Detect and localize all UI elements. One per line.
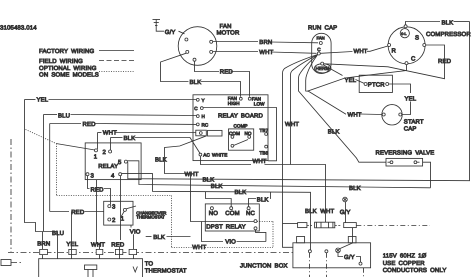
dotted wire from DPST right	[257, 221, 273, 223]
wire BLK compressor 0-L to right bus	[406, 22, 470, 25]
svg-text:1: 1	[121, 215, 125, 222]
svg-text:BLK: BLK	[124, 135, 136, 142]
fuse holder pin	[196, 130, 222, 136]
DPST relay	[205, 204, 259, 231]
wire WHT compressor R to run cap C	[321, 46, 388, 53]
svg-text:G/Y: G/Y	[165, 29, 176, 36]
svg-text:NO: NO	[209, 210, 218, 217]
connector VIO	[129, 249, 137, 254]
svg-text:WHT: WHT	[185, 171, 199, 178]
start cap	[382, 105, 402, 125]
wire diagonal to relay pin 1	[56, 144, 95, 151]
splice WHT	[315, 222, 341, 228]
label CHANGEOVER THERMOSTAT	[127, 206, 167, 220]
thermostat box	[39, 259, 143, 277]
wire BLK relay pin5 to compressor 0-L bus	[128, 22, 470, 181]
svg-text:WHT: WHT	[103, 130, 117, 137]
cable clamp right	[348, 237, 356, 243]
svg-text:LOW: LOW	[254, 101, 265, 106]
svg-text:RED: RED	[220, 69, 234, 76]
pin FAN LOW	[248, 97, 265, 107]
svg-text:BLU: BLU	[52, 230, 64, 237]
svg-text:CAP: CAP	[404, 126, 417, 133]
svg-text:BLK: BLK	[349, 185, 361, 192]
svg-text:BLK: BLK	[153, 234, 165, 241]
wire run cap C fan lines	[283, 55, 387, 248]
relay (5 pin)	[85, 143, 141, 180]
connector BRN	[40, 249, 48, 254]
svg-text:FIELD WIRING: FIELD WIRING	[39, 58, 83, 65]
svg-text:Y: Y	[202, 98, 205, 103]
splice BLK	[298, 223, 312, 228]
svg-text:COMP: COMP	[234, 123, 248, 128]
svg-text:NC: NC	[246, 210, 255, 217]
svg-text:G/Y: G/Y	[344, 254, 355, 261]
svg-text:2: 2	[103, 149, 107, 156]
svg-text:TB8: TB8	[260, 151, 269, 156]
svg-text:RELAY BOARD: RELAY BOARD	[218, 113, 263, 120]
wire RED relay pin3 to changeover thermostat	[88, 176, 111, 205]
svg-text:NO: NO	[245, 131, 252, 136]
svg-text:RELAY: RELAY	[98, 163, 118, 170]
svg-text:RED: RED	[91, 186, 105, 193]
wire compressor C to start cap WHT	[308, 65, 407, 115]
svg-text:WHT: WHT	[320, 208, 334, 215]
wire G/Y ground to fan motor	[156, 20, 184, 34]
wire WHT left to fuse pin and relay pin 1	[98, 133, 196, 150]
svg-text:WHT: WHT	[354, 48, 368, 55]
pin Y	[196, 98, 204, 103]
field wiring dash-dot main line	[8, 252, 293, 254]
label TO THERMOSTAT	[145, 261, 187, 275]
svg-text:FAN: FAN	[220, 23, 232, 30]
svg-text:S: S	[415, 35, 419, 42]
svg-text:YEL: YEL	[345, 77, 357, 84]
svg-text:AC WHITE: AC WHITE	[203, 153, 227, 158]
wire G/Y in junction box	[338, 253, 362, 266]
wire BRN fan motor to run cap FAN	[213, 42, 318, 43]
svg-text:USE COPPER: USE COPPER	[383, 260, 426, 267]
wire G/Y splice into junction box	[339, 228, 353, 249]
pin AC WHITE	[199, 153, 227, 158]
wire RED compressor S to run cap HERM	[325, 45, 445, 79]
svg-text:VIO: VIO	[225, 238, 236, 245]
svg-text:WHT: WHT	[253, 158, 267, 165]
wire BLK reversing valve to bus	[423, 162, 431, 188]
connector WHT	[96, 249, 103, 254]
wire BLK left to AC WHITE	[111, 138, 201, 154]
svg-text:RED: RED	[438, 58, 452, 65]
ground (chassis)	[153, 20, 161, 26]
wire BLK line to DPST COM	[206, 192, 232, 207]
compressor	[388, 25, 426, 65]
field wiring dash-dot left vertical	[10, 139, 12, 252]
pin RC	[196, 122, 209, 127]
wire YEL left to relay board Y	[25, 100, 197, 250]
svg-text:WHT: WHT	[91, 242, 105, 249]
svg-text:H: H	[202, 114, 205, 119]
wire WHT to DPST and VIO run	[191, 174, 266, 242]
svg-text:4: 4	[111, 172, 115, 179]
svg-text:COM: COM	[229, 131, 240, 136]
field wiring stub bottom left	[1, 260, 21, 266]
run cap	[312, 33, 331, 73]
legend: field wiring	[39, 58, 134, 65]
svg-text:TB7: TB7	[260, 128, 269, 133]
pin TB7	[260, 128, 269, 136]
wire BLU left to relay board H	[44, 115, 197, 259]
svg-text:WHT: WHT	[259, 49, 273, 56]
wire RED fan motor to relay board FAN LOW	[195, 61, 250, 96]
wire stubs into thermostat box	[43, 180, 134, 259]
PTCR	[359, 75, 392, 92]
svg-text:0-L: 0-L	[401, 32, 406, 36]
svg-text:2: 2	[112, 217, 116, 224]
grommet	[85, 265, 97, 277]
wire YEL run cap HERM to PTCR	[323, 65, 364, 84]
svg-text:BLK: BLK	[190, 79, 202, 86]
svg-text:BLK: BLK	[442, 19, 454, 26]
svg-text:BLK: BLK	[155, 157, 167, 164]
svg-text:BLK: BLK	[235, 189, 247, 196]
svg-text:RED: RED	[83, 121, 97, 128]
svg-text:YEL: YEL	[37, 97, 49, 104]
pin C	[194, 106, 203, 111]
svg-text:WHT: WHT	[192, 244, 206, 251]
legend: optional wiring on some models	[39, 65, 134, 79]
wire BLK relay pin4 line to junction box	[122, 174, 311, 250]
svg-text:BLK: BLK	[328, 129, 340, 136]
svg-text:WHT: WHT	[348, 111, 362, 118]
svg-text:DPST RELAY: DPST RELAY	[206, 223, 246, 230]
label START CAP	[404, 119, 424, 133]
svg-text:BLU: BLU	[58, 113, 70, 120]
svg-text:VIO: VIO	[130, 229, 141, 236]
svg-text:3: 3	[112, 204, 116, 211]
junction box ground screw	[336, 248, 341, 253]
wire WHT AC pin to junction box	[201, 156, 326, 222]
junction box WHT pin	[325, 250, 328, 253]
pin FAN HIGH	[228, 96, 242, 106]
svg-text:C: C	[411, 55, 416, 62]
svg-text:THERMOSTAT: THERMOSTAT	[145, 268, 187, 275]
svg-text:TO: TO	[145, 261, 154, 268]
svg-text:THERMOSTAT: THERMOSTAT	[136, 215, 165, 220]
svg-text:BLK: BLK	[257, 196, 269, 203]
relay board	[193, 95, 268, 161]
label FAN MOTOR	[217, 23, 240, 37]
svg-text:YEL: YEL	[66, 241, 78, 248]
svg-text:YEL: YEL	[405, 95, 417, 102]
changeover thermostat	[104, 201, 133, 225]
svg-text:FAN: FAN	[317, 36, 325, 41]
svg-text:BLK: BLK	[211, 183, 223, 190]
svg-text:WHT: WHT	[285, 121, 299, 128]
splice G/Y	[344, 223, 430, 228]
svg-text:RUN CAP: RUN CAP	[308, 25, 337, 32]
svg-text:BRN: BRN	[259, 39, 272, 46]
svg-text:1: 1	[94, 153, 98, 160]
svg-text:MOTOR: MOTOR	[217, 30, 240, 37]
svg-text:HIGH: HIGH	[228, 101, 240, 106]
wire relay pin4 down to RED connector	[120, 176, 122, 240]
wire WHT fan motor to run cap C	[213, 52, 317, 54]
svg-text:FACTORY WIRING: FACTORY WIRING	[39, 48, 94, 55]
svg-text:PTCR: PTCR	[368, 81, 385, 88]
connector YEL	[69, 249, 76, 254]
cable clamp left	[297, 237, 305, 243]
wire BLK fuse pin to DPST column	[165, 136, 207, 174]
svg-text:C: C	[194, 106, 198, 111]
junction box BLK pin	[308, 250, 311, 253]
svg-text:COM: COM	[225, 210, 239, 217]
svg-text:JUNCTION BOX: JUNCTION BOX	[240, 262, 288, 269]
svg-text:CONDUCTORS ONLY: CONDUCTORS ONLY	[383, 267, 447, 274]
svg-text:3105483.014: 3105483.014	[0, 25, 37, 32]
svg-text:COMPRESSOR: COMPRESSOR	[426, 31, 471, 38]
svg-text:ON SOME MODELS: ON SOME MODELS	[39, 72, 99, 79]
svg-text:BLK: BLK	[203, 177, 215, 184]
wire YEL PTCR to start cap	[389, 84, 411, 115]
legend: factory wiring	[39, 48, 134, 55]
wire VIO thermostat to connector	[130, 225, 132, 227]
wire RED left vertical to thermostat box	[50, 211, 104, 213]
wire BLK splice feed	[283, 223, 298, 225]
svg-text:RED: RED	[71, 209, 85, 216]
ground screw (chassis)	[343, 197, 348, 202]
arrow to thermostat	[133, 267, 137, 273]
connector RED	[115, 249, 122, 254]
svg-text:START: START	[404, 119, 424, 126]
wire BLK fan motor to relay board FAN HIGH	[161, 53, 241, 96]
svg-text:115V 60HZ 1Ø: 115V 60HZ 1Ø	[383, 252, 427, 259]
pin H	[196, 114, 205, 119]
svg-text:R: R	[392, 48, 397, 55]
svg-text:BLK: BLK	[305, 208, 317, 215]
svg-text:REVERSING VALVE: REVERSING VALVE	[376, 150, 435, 157]
pin TB8	[260, 145, 269, 155]
svg-text:3: 3	[91, 172, 95, 179]
reversing valve	[386, 158, 423, 166]
field wires below junction box	[310, 253, 364, 277]
junction box	[293, 243, 371, 268]
wire C pin wrap to WHT line	[266, 108, 277, 161]
wire C pin internal to right side	[203, 107, 266, 109]
svg-text:RED: RED	[111, 242, 125, 249]
wire G/Y chassis to splice	[345, 202, 347, 223]
wire BLK thermostat area	[146, 236, 191, 238]
dotted optional wire to relay pin 1	[26, 130, 274, 248]
wire BLK DPST NC	[249, 192, 271, 207]
wire BLK relay pin5 to reversing valve	[128, 161, 431, 188]
svg-text:OPTIONAL WIRING: OPTIONAL WIRING	[39, 65, 97, 72]
svg-text:RC: RC	[202, 122, 209, 127]
svg-text:BRN: BRN	[37, 240, 50, 247]
svg-text:5: 5	[118, 159, 122, 166]
svg-text:C: C	[317, 47, 321, 52]
comp relay box	[229, 123, 254, 150]
fan motor	[178, 27, 217, 66]
wire RED left to relay board RC	[50, 124, 197, 247]
